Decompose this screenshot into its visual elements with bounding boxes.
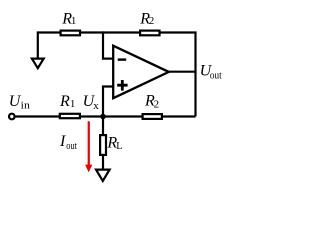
svg-text:1: 1 (71, 15, 77, 27)
wire: R1 right to R2 left along top rail (through inverting-branch tap) (81, 31, 140, 33)
wire: R1 (bottom) right to node Ux (81, 115, 104, 117)
wire: R2 right, top-right corner, right rail down to bottom-right corner (160, 33, 196, 117)
svg-text:x: x (93, 100, 99, 112)
svg-text:2: 2 (149, 15, 155, 27)
wire: ground riser to top rail and on to R1 left (38, 33, 60, 59)
net label Uin (9, 93, 31, 112)
current arrow Iout (red) (85, 121, 92, 172)
svg-text:out: out (210, 71, 222, 82)
op-amp non-inverting input '+' symbol (117, 80, 127, 91)
wire: node Ux down to RL top (102, 117, 104, 135)
svg-text:1: 1 (70, 98, 76, 110)
current label Iout (59, 133, 77, 152)
node label Ux (83, 93, 100, 112)
resistor R2 (top, feedback) (139, 10, 159, 35)
svg-text:L: L (116, 141, 122, 152)
wire: node Ux riser up to non-inverting input (103, 87, 113, 118)
op-amp U1 triangle (113, 46, 169, 98)
resistor R2 (bottom, positive feedback) (143, 93, 162, 119)
svg-text:R: R (59, 93, 70, 110)
wire: R2 (bottom) right to right rail (163, 115, 196, 117)
node Ux junction dot (100, 114, 106, 120)
op-amp inverting input '-' symbol (118, 58, 127, 60)
input terminal (Uin) (9, 114, 15, 120)
net label Uout (200, 62, 222, 81)
ground symbol (bottom, below RL) (96, 170, 110, 181)
svg-text:2: 2 (154, 98, 160, 110)
wire: node Ux to R2 (bottom) left (103, 115, 142, 117)
svg-text:in: in (21, 100, 31, 112)
svg-text:out: out (66, 141, 77, 152)
resistor RL (load) (100, 135, 122, 155)
wire: Uin terminal to R1 (bottom) left (15, 115, 59, 117)
ground symbol (top left) (32, 59, 44, 69)
wire: tap from top rail down to inverting input (103, 31, 113, 58)
resistor R1 (top, to ground) (61, 10, 80, 35)
wire: RL bottom to ground (102, 156, 104, 169)
resistor R1 (bottom, input) (59, 93, 80, 118)
wire: op-amp output to right rail (168, 71, 197, 73)
svg-text:I: I (59, 133, 66, 150)
